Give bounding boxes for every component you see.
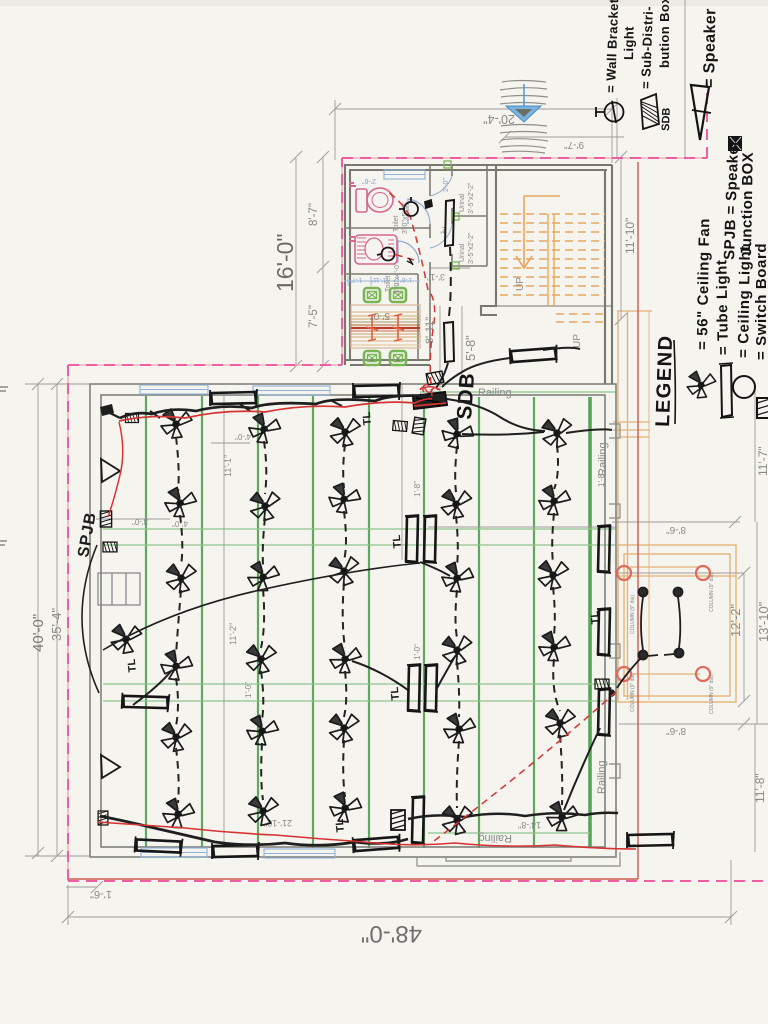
svg-text:2'-0": 2'-0" [443,178,450,192]
ceiling fan F5 [539,414,576,450]
wire SDB to right fans [447,399,545,431]
svg-text:= Sub-Distri-: = Sub-Distri- [638,6,656,89]
tube light TL1 [210,389,257,407]
svg-text:11'-7": 11'-7" [756,446,768,476]
interior dim lines [223,396,225,848]
svg-text:11'-8": 11'-8" [753,773,767,803]
tube light TL5 [134,835,182,856]
svg-text:3'-0": 3'-0" [132,517,148,526]
svg-text:Railing: Railing [478,387,512,399]
corridor wires [449,247,451,316]
svg-text:1'-6": 1'-6" [90,888,112,900]
svg-text:UP: UP [572,334,583,348]
tube light TL6 [212,842,259,860]
wire TL pair to fans [420,562,450,576]
mid swooping wire [103,563,420,650]
ceiling fan F14 [440,560,476,594]
green beam vertical lines [146,396,534,848]
svg-text:8'-6": 8'-6" [666,524,686,535]
svg-text:= Switch Board: = Switch Board [753,243,768,360]
junction box JB9 [393,421,408,432]
ceiling fan F11 [164,560,200,594]
top 16' dims [296,158,323,366]
ceiling fan F26 [161,797,196,830]
junction box JB6 [391,810,405,830]
squat toilet [355,235,397,264]
tube light TLV3 [407,664,421,712]
svg-text:40'-0": 40'-0" [30,614,47,652]
thick green wall line right [588,397,592,848]
svg-text:COLUMN (9" dia): COLUMN (9" dia) [630,595,636,634]
svg-text:7'-5": 7'-5" [308,305,320,328]
1'-6 dim [66,881,103,893]
right wall jogs [609,424,620,778]
orange veranda verticals [613,311,652,700]
svg-text:bution Box: bution Box [657,0,672,68]
urinal tube lights [444,200,454,362]
svg-text:= Speaker: = Speaker [701,8,719,88]
ceiling light CL4 [390,351,406,365]
junction box JB5 [595,679,609,689]
svg-text:Railing: Railing [596,760,608,794]
svg-text:20'-4": 20'-4" [483,112,515,126]
legend symbol: ceiling fan [687,371,716,398]
toilet interior walls [345,165,487,360]
svg-text:TL: TL [389,686,402,701]
legend left column text [694,218,768,360]
left big arc [82,545,99,693]
ceiling fan F17 [244,642,279,675]
junction box JB4 [98,811,108,825]
svg-text:COLUMN (9" dia): COLUMN (9" dia) [630,673,636,712]
ceiling fan F9 [440,487,474,519]
svg-text:3'-1": 3'-1" [427,272,445,282]
svg-text:3'-5"x2'-2": 3'-5"x2'-2" [468,182,475,214]
top heavy wire [120,396,428,418]
tube light TLV5 [597,525,611,573]
svg-text:1'-6": 1'-6" [400,276,412,282]
ceiling fan F15 [536,558,570,591]
11'-10 dim [615,151,627,325]
svg-text:LEGEND: LEGEND [652,334,677,427]
svg-text:UP: UP [515,277,526,291]
ceiling fan F23 [326,710,362,744]
bottom heavy wires [100,816,408,845]
svg-text:= Tube Light: = Tube Light [713,259,732,355]
ceiling fan F25 [543,706,578,739]
small green marks at urinal entries [444,161,459,269]
ceiling fan F8 [326,481,363,517]
speaker SP1 [101,459,120,482]
ceiling fan F1 [161,409,192,438]
svg-text:1'-11": 1'-11" [371,276,386,282]
svg-text:3'-0"x4'-0": 3'-0"x4'-0" [394,262,401,294]
svg-text:3'-0"x5'-0": 3'-0"x5'-0" [402,202,409,234]
pink dashed boundary [68,82,768,881]
vertical dashed fan wires [176,437,562,808]
svg-text:14'-8": 14'-8" [518,820,541,830]
svg-text:TL: TL [361,411,374,426]
tube light TL4 [510,345,558,365]
svg-text:12'-2": 12'-2" [728,603,743,637]
ceiling light CL1 [364,288,380,302]
ceiling fan F2 [246,411,282,446]
stair block walls [481,165,612,384]
junction box JB8 [412,417,426,435]
porch orange rectangles [618,545,736,702]
svg-text:SDB: SDB [453,372,479,421]
ceiling fan F31 [110,623,143,655]
svg-text:1'-0": 1'-0" [413,644,422,660]
junction box JB1 [100,511,111,527]
ceiling fan F28 [327,790,363,825]
ceiling fan F29 [440,802,476,836]
svg-text:5'-8": 5'-8" [463,335,478,361]
tube light TLV8 [411,796,425,844]
svg-text:Urinal: Urinal [459,193,466,212]
svg-text:13'-10": 13'-10" [756,601,768,642]
svg-text:= Ceiling Light: = Ceiling Light [735,245,754,358]
ceiling fan F12 [247,561,281,593]
svg-text:Toilet: Toilet [385,276,392,292]
green horizontal lines [103,392,616,833]
toilet ceiling lights (hand) [377,197,432,265]
red caliper marks [366,314,404,341]
junction box JB7 [426,371,444,385]
boundary solid pale red underlay [68,158,707,881]
tube light TL9 [122,692,170,712]
svg-text:Light: Light [621,26,637,60]
svg-text:1'-7": 1'-7" [350,276,362,282]
WC toilet [356,189,367,212]
svg-text:Urinal: Urinal [459,243,466,262]
ceiling fan F18 [329,643,362,675]
hall outer walls [90,384,616,857]
speaker SP2 [101,755,120,778]
ceiling fan F27 [246,794,281,827]
legend right column [595,101,624,123]
tube light TLV7 [597,688,611,736]
svg-text:11'-1": 11'-1" [223,455,233,477]
tube light TL7 [353,834,401,854]
svg-text:5'-0": 5'-0" [370,310,390,321]
ceiling fan F3 [328,415,363,448]
svg-text:8'-6": 8'-6" [666,725,686,736]
urinal cells [451,165,453,266]
svg-text:Railing: Railing [478,832,512,844]
tube light TLV2 [423,515,437,563]
svg-text:1'-8": 1'-8" [413,481,422,497]
ceiling fan F13 [326,553,363,589]
switch board 3-cell [98,573,140,605]
junction box JB3 [126,413,139,422]
tube light TLV4 [424,664,438,712]
svg-text:11'-10": 11'-10" [623,218,637,254]
svg-text:SDB: SDB [660,107,673,131]
toilet block outer walls [345,165,612,365]
bottom 48' dim [68,916,731,918]
red scribble at SDB [420,388,438,393]
ceiling fan F4 [438,415,477,453]
svg-text:2'-6": 2'-6" [362,177,376,184]
blue tick row [344,276,420,286]
right side dims [612,516,741,528]
svg-text:COLUMN (9" dia): COLUMN (9" dia) [709,573,715,612]
svg-text:Railing: Railing [597,442,609,476]
top 20'-4 dim [335,108,612,110]
svg-text:8'-7": 8'-7" [308,203,320,226]
ceiling fan F6 [163,486,198,519]
svg-text:Toilet: Toilet [393,216,400,232]
ceiling fan F10 [537,484,572,517]
ceiling fan F19 [439,632,476,667]
svg-text:TL: TL [391,534,404,549]
svg-text:35'-4": 35'-4" [49,607,64,641]
svg-text:11'-2": 11'-2" [228,623,238,645]
ceiling fan F30 [546,801,580,833]
svg-text:TL: TL [126,658,139,673]
left 40' dims [25,384,90,856]
svg-text:16'-0": 16'-0" [272,233,298,292]
hand TL labels [126,411,602,833]
svg-text:= 56" Ceiling Fan: = 56" Ceiling Fan [694,218,713,350]
ceiling fan F22 [245,714,281,748]
svg-text:3'-5"x2'-2": 3'-5"x2'-2" [468,232,475,264]
tube light TL8 [627,831,674,849]
door swing arcs [398,176,452,263]
svg-text:COLUMN (9" dia): COLUMN (9" dia) [709,675,715,714]
9'-7 dim [499,131,612,143]
SDB heavy box [413,392,447,409]
bottom-right recessed railing platform [417,852,620,866]
svg-text:1'-8": 1'-8" [597,471,606,487]
ceiling fan F7 [247,488,283,523]
tube light TLV1 [405,515,419,563]
svg-text:1'-0": 1'-0" [244,682,253,698]
ceiling light CL3 [364,351,380,365]
ceiling light CL2 [390,288,406,302]
ceiling fan F20 [537,630,572,663]
svg-text:9'-7": 9'-7" [564,139,584,150]
ceiling fan F24 [442,712,476,745]
tube light TL2 [353,382,400,400]
svg-text:48'-0": 48'-0" [361,920,422,947]
ceiling fan F16 [158,648,195,683]
ceiling fan F21 [160,720,194,752]
stair up arrow [516,196,560,268]
solid light red lines [68,162,638,879]
junction box JB2 [103,542,117,552]
svg-text:4'-0": 4'-0" [235,432,251,441]
porch wires + lights [610,588,684,697]
tube light TLV6 [597,608,611,656]
svg-text:Junction BOX: Junction BOX [738,152,757,256]
